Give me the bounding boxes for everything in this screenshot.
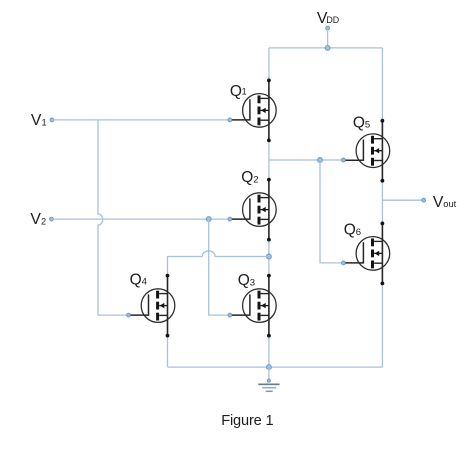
- node Q3 gate dot: [228, 313, 232, 317]
- svg-text:Q: Q: [241, 169, 253, 186]
- wire Vout tap: [382, 199, 423, 201]
- svg-text:6: 6: [356, 227, 361, 238]
- node V1 terminal dot: [50, 118, 54, 122]
- wire VDD top rail: [269, 47, 383, 49]
- wire Q3 source to ground rail: [268, 336, 270, 368]
- transistor Q4: [131, 274, 175, 338]
- svg-text:V: V: [31, 112, 42, 129]
- node Vout terminal dot: [422, 198, 426, 202]
- ground: [258, 367, 279, 391]
- svg-text:Q: Q: [230, 83, 242, 100]
- node Q6 gate dot: [342, 261, 346, 265]
- label Q5: [353, 114, 370, 131]
- label Q1: [230, 83, 247, 100]
- svg-text:V: V: [433, 194, 444, 211]
- wire node B to Q4 drain (hops over V2 branch): [168, 251, 269, 276]
- transistor Q5: [346, 119, 390, 183]
- wire V2 to Q2 gate: [52, 218, 230, 220]
- node Q1 gate dot: [228, 118, 232, 122]
- node Q4 gate dot: [127, 313, 131, 317]
- junction node A: [318, 158, 323, 163]
- label Q4: [130, 271, 147, 288]
- junction VDD rail: [325, 46, 330, 51]
- svg-text:5: 5: [365, 120, 370, 131]
- svg-text:2: 2: [253, 174, 258, 185]
- wire V1 branch to Q4 gate (hops over V2): [98, 120, 129, 315]
- junction node B: [267, 254, 272, 259]
- wire rail to Q1 drain: [268, 48, 270, 81]
- svg-text:DD: DD: [326, 15, 339, 25]
- wire VDD stub: [327, 28, 329, 48]
- wire Q6 source to ground rail: [381, 283, 383, 367]
- node V2 terminal dot: [50, 217, 54, 221]
- power VDD label: [317, 10, 339, 27]
- svg-text:4: 4: [142, 277, 147, 288]
- svg-text:out: out: [443, 199, 456, 209]
- svg-text:Figure 1: Figure 1: [221, 413, 273, 429]
- wire Q5 source to Q6 drain: [381, 181, 383, 224]
- svg-text:1: 1: [242, 87, 247, 97]
- label Q6: [344, 222, 361, 239]
- transistor Q6: [346, 222, 390, 286]
- junction ground rail: [267, 365, 272, 370]
- wire ground rail: [168, 366, 383, 368]
- wire node A to Q5 gate: [269, 159, 344, 161]
- svg-text:Q: Q: [353, 114, 365, 131]
- output Vout label: [433, 194, 457, 211]
- svg-text:Q: Q: [344, 222, 356, 239]
- svg-text:V: V: [30, 211, 41, 228]
- wire V1 to Q1 gate: [52, 119, 230, 121]
- wire Q2 source to node B: [268, 240, 270, 276]
- wire Q4 source to ground rail: [167, 336, 169, 368]
- transistor Q1: [232, 79, 276, 143]
- wire rail to Q5 drain: [381, 48, 383, 121]
- svg-text:2: 2: [41, 217, 46, 227]
- wire node A branch to Q6 gate: [320, 160, 343, 263]
- transistor Q3: [232, 274, 276, 338]
- input V2 label: [30, 211, 46, 228]
- wire Q1 source to Q2 drain: [268, 140, 270, 179]
- label Q3: [238, 272, 255, 289]
- svg-text:3: 3: [250, 277, 255, 288]
- node Q2 gate dot: [228, 217, 232, 221]
- wire V2 branch to Q3 gate: [209, 219, 230, 315]
- label Q2: [241, 169, 258, 186]
- svg-text:Q: Q: [130, 271, 142, 288]
- node VDD terminal dot: [326, 26, 330, 30]
- junction V2 branch: [206, 217, 211, 222]
- input V1 label: [31, 112, 47, 129]
- node Q5 gate dot: [342, 158, 346, 162]
- svg-text:1: 1: [42, 117, 47, 127]
- svg-text:Q: Q: [238, 272, 250, 289]
- transistor Q2: [232, 178, 276, 242]
